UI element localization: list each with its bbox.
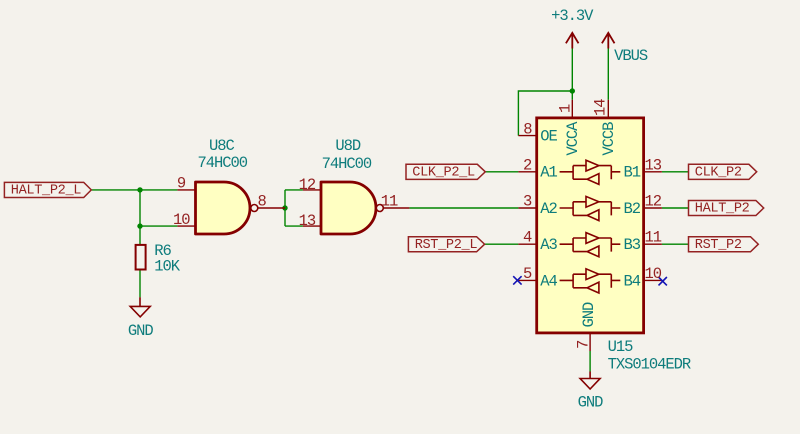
pin 7 GND of U15 xyxy=(589,332,591,352)
global label CLK_P2 shape xyxy=(689,164,757,179)
svg-text:RST_P2: RST_P2 xyxy=(695,238,742,253)
pin 10 B4 of U15 xyxy=(644,279,662,281)
svg-text:13: 13 xyxy=(645,156,662,174)
nand gate U8C output bubble xyxy=(251,205,258,212)
global label HALT_P2_L shape xyxy=(4,182,91,197)
wire VBUS to U15 pin 14 xyxy=(607,49,609,100)
ground symbol below U15 xyxy=(580,372,600,390)
svg-text:9: 9 xyxy=(177,174,186,192)
svg-text:VBUS: VBUS xyxy=(614,47,648,65)
wire RST_P2_L to U15 A3 xyxy=(485,243,519,245)
wire +3.3V to U15 pin 1 xyxy=(571,49,573,100)
svg-text:10K: 10K xyxy=(154,258,181,276)
wire +3.3V branch to OE pin 8 xyxy=(518,91,572,136)
svg-text:VCCA: VCCA xyxy=(564,121,582,156)
wire U8D output to U15 A2 xyxy=(409,207,518,209)
junction at U8C output xyxy=(282,205,287,210)
svg-text:13: 13 xyxy=(299,212,316,230)
svg-text:11: 11 xyxy=(381,193,398,211)
svg-text:3: 3 xyxy=(523,193,532,211)
nand gate U8D body xyxy=(321,182,376,234)
pin 12 of U8D xyxy=(303,189,323,191)
global label HALT_P2 shape xyxy=(689,201,764,216)
pin 13 of U8D xyxy=(303,225,323,227)
resistor R6 body xyxy=(136,245,146,270)
pin 8 of U8C (output) xyxy=(258,207,285,209)
wire to U8D pin 13 xyxy=(285,225,303,227)
svg-text:7: 7 xyxy=(574,340,592,349)
pin 10 of U8C xyxy=(177,225,197,227)
wire CLK_P2_L to U15 A1 xyxy=(485,171,518,173)
wire U15 B3 to RST_P2 xyxy=(662,243,689,245)
svg-text:12: 12 xyxy=(299,176,316,194)
wire U15 pin 7 to GND xyxy=(589,351,591,372)
svg-text:HALT_P2_L: HALT_P2_L xyxy=(11,183,81,198)
pin 12 B2 of U15 xyxy=(644,207,662,209)
svg-text:A3: A3 xyxy=(540,236,557,254)
pin 11 of U8D (output) xyxy=(383,207,409,209)
svg-text:5: 5 xyxy=(523,265,532,283)
pin 5 A4 of U15 xyxy=(518,279,538,281)
svg-text:A4: A4 xyxy=(540,272,557,290)
svg-text:U8D: U8D xyxy=(335,137,361,155)
svg-text:10: 10 xyxy=(173,211,190,229)
ground symbol below R6 xyxy=(130,297,150,317)
pin 4 A3 of U15 xyxy=(518,243,538,245)
svg-text:12: 12 xyxy=(645,193,662,211)
svg-text:8: 8 xyxy=(258,193,267,211)
svg-text:U8C: U8C xyxy=(209,137,235,155)
wire vertical branch at x=140 xyxy=(139,190,141,226)
wire resistor R6 bottom to GND xyxy=(139,270,141,298)
pin 3 A2 of U15 xyxy=(518,207,538,209)
wire junction to resistor R6 top xyxy=(139,226,141,245)
svg-text:A1: A1 xyxy=(540,164,557,182)
svg-text:VCCB: VCCB xyxy=(600,122,618,156)
pin 2 A1 of U15 xyxy=(518,171,538,173)
buffer symbol row A3-B3 xyxy=(560,233,621,257)
svg-text:74HC00: 74HC00 xyxy=(322,155,372,173)
pin 1 VCCA of U15 xyxy=(571,100,573,120)
wire U15 B1 to CLK_P2 xyxy=(662,171,689,173)
global label CLK_P2_L shape xyxy=(406,164,485,179)
power symbol VBUS arrow xyxy=(602,33,615,49)
svg-text:10: 10 xyxy=(645,265,662,283)
svg-text:4: 4 xyxy=(523,229,532,247)
junction at +3.3V / OE branch xyxy=(570,88,575,93)
wire to U8D pin 12 xyxy=(285,189,303,191)
svg-text:CLK_P2: CLK_P2 xyxy=(695,166,742,181)
svg-text:HALT_P2: HALT_P2 xyxy=(695,202,750,217)
svg-text:B4: B4 xyxy=(623,272,640,290)
global label RST_P2_L shape xyxy=(408,237,484,252)
svg-text:B2: B2 xyxy=(623,200,640,218)
op-amp U15 body rectangle xyxy=(537,118,644,333)
svg-text:74HC00: 74HC00 xyxy=(198,154,248,172)
svg-text:GND: GND xyxy=(128,322,154,340)
svg-text:B1: B1 xyxy=(623,164,640,182)
svg-text:RST_P2_L: RST_P2_L xyxy=(415,238,478,253)
nand gate U8D output bubble xyxy=(376,205,383,212)
no-connect X at B4 xyxy=(659,277,667,285)
svg-text:U15: U15 xyxy=(608,338,634,356)
power symbol +3.3V arrow xyxy=(566,33,579,49)
svg-text:2: 2 xyxy=(523,156,532,174)
svg-text:14: 14 xyxy=(591,99,609,116)
junction at pin10 / R6 xyxy=(137,223,142,228)
wire HALT_P2_L to U8C pin 9 xyxy=(92,189,178,191)
svg-text:TXS0104EDR: TXS0104EDR xyxy=(608,356,691,374)
svg-text:11: 11 xyxy=(645,229,662,247)
pin 13 B1 of U15 xyxy=(644,171,662,173)
pin 11 B3 of U15 xyxy=(644,243,662,245)
wire U15 B2 to HALT_P2 xyxy=(662,207,689,209)
junction at HALT_P2_L / pin9 xyxy=(137,187,142,192)
pin 14 VCCB of U15 xyxy=(607,100,609,120)
wire U8D input branch vertical xyxy=(284,190,286,226)
svg-text:CLK_P2_L: CLK_P2_L xyxy=(412,166,475,181)
svg-text:A2: A2 xyxy=(540,200,557,218)
svg-text:+3.3V: +3.3V xyxy=(551,7,594,25)
global label RST_P2 shape xyxy=(689,237,759,252)
svg-text:OE: OE xyxy=(540,128,557,146)
no-connect X at A4 xyxy=(513,276,521,284)
svg-text:B3: B3 xyxy=(623,236,640,254)
svg-text:8: 8 xyxy=(523,121,532,139)
buffer symbol row A4-B4 xyxy=(560,269,621,293)
wire to U8C pin 10 xyxy=(140,225,177,227)
buffer symbol row A2-B2 xyxy=(560,196,621,220)
pin 9 of U8C xyxy=(177,189,197,191)
svg-text:GND: GND xyxy=(580,302,598,328)
nand gate U8C body xyxy=(196,182,250,234)
buffer symbol row A1-B1 xyxy=(560,160,621,184)
svg-text:1: 1 xyxy=(557,104,575,113)
pin 8 OE of U15 xyxy=(518,135,538,137)
svg-text:GND: GND xyxy=(578,393,604,411)
